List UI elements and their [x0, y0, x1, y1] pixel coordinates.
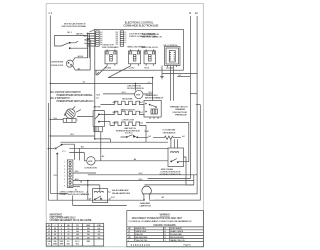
svg-text:240: 240: [54, 234, 56, 236]
svg-text:#12: #12: [67, 234, 69, 236]
svg-text:-2: -2: [86, 191, 87, 193]
svg-text:A-1: A-1: [108, 190, 110, 193]
wire k3 pin to smoke: [152, 78, 154, 101]
wire A-B row 2: [69, 153, 86, 161]
svg-text:USE COPPER WIRE ONLY: USE COPPER WIRE ONLY: [50, 217, 77, 219]
svg-text:SEUL: SEUL: [76, 244, 80, 246]
svg-text:ONLY: ONLY: [67, 244, 71, 246]
svg-text:LINE: LINE: [53, 241, 56, 243]
wire bottom long: [48, 199, 200, 201]
svg-text:NO-8: NO-8: [96, 95, 100, 97]
connector CB1: [67, 160, 73, 188]
svg-text:NO-1: NO-1: [139, 179, 143, 181]
svg-text:WIRE: WIRE: [86, 241, 90, 243]
wire L2 bus: [143, 16, 198, 194]
wire NO-2 row: [50, 135, 95, 137]
svg-text:JUNCTION BOARD: JUNCTION BOARD: [102, 46, 119, 49]
svg-text:A-3: A-3: [102, 155, 104, 158]
svg-text:NO-5 NO-1: NO-5 NO-1: [125, 133, 133, 135]
wire N to L2 link: [190, 93, 197, 95]
wire long row: [60, 141, 168, 143]
svg-text:#10: #10: [67, 231, 69, 233]
svg-text:COOLING FAN: COOLING FAN: [162, 129, 175, 132]
svg-text:F L: F L: [48, 244, 50, 246]
svg-text:P2-5: P2-5: [116, 40, 119, 42]
svg-text:A-8: A-8: [134, 158, 136, 161]
svg-text:A-3: A-3: [78, 67, 80, 70]
svg-text:BLANC / WHITE: BLANC / WHITE: [171, 230, 184, 233]
svg-text:MTR: MTR: [88, 161, 93, 163]
electronic control box U1: [95, 29, 184, 70]
wire latch motor left: [103, 93, 135, 95]
svg-text:NO. 8: NO. 8: [122, 92, 126, 94]
svg-text:CANADA ONLY: CANADA ONLY: [145, 94, 159, 97]
svg-text:OVEN PROBE: OVEN PROBE: [51, 62, 64, 64]
svg-text:WHITE / WHT: WHITE / WHT: [136, 231, 148, 233]
svg-text:10-1: 10-1: [100, 32, 103, 34]
svg-text:A-3: A-3: [89, 197, 91, 200]
wire cb1 rows: [73, 172, 96, 174]
svg-text:ON BK: ON BK: [53, 244, 57, 246]
svg-text:A-3: A-3: [162, 196, 164, 199]
svg-text:LAMPE FILM: LAMPE FILM: [140, 205, 151, 208]
svg-text:JAUNE / YELLOW: JAUNE / YELLOW: [171, 239, 185, 242]
svg-text:D-8: D-8: [178, 75, 181, 77]
svg-text:CONVECTION: CONVECTION: [84, 168, 97, 170]
wire latch motor right: [143, 93, 153, 95]
svg-text:N: N: [189, 11, 191, 15]
svg-text:240: 240: [54, 228, 56, 230]
wire fuse row: [153, 136, 181, 139]
svg-text:SWITCH MOTEUR NORMAL: SWITCH MOTEUR NORMAL: [62, 25, 87, 28]
legend box: [127, 211, 204, 247]
svg-text:MTR: MTR: [136, 95, 141, 97]
relay K4 connector: [165, 47, 181, 66]
relay K8 delay: [93, 189, 108, 203]
svg-text:DELAY DATA LAMP: DELAY DATA LAMP: [112, 189, 129, 192]
svg-text:4 1 1: 4 1 1: [62, 151, 65, 153]
svg-text:CONNECTEUR DE LA COMMANDE: CONNECTEUR DE LA COMMANDE: [59, 193, 90, 196]
wire probe riser A: [87, 33, 89, 58]
svg-text:MOTOR LATCH SWITCH: MOTOR LATCH SWITCH: [64, 23, 86, 26]
svg-text:A-2 B-8: A-2 B-8: [78, 55, 83, 58]
svg-text:B-1: B-1: [96, 98, 98, 100]
svg-text:CNTRL CONNECTOR BLOC: CNTRL CONNECTOR BLOC: [60, 191, 85, 193]
svg-text:L-1: L-1: [148, 82, 150, 84]
wire diagonal into control box: [89, 30, 94, 33]
operations table: [46, 223, 103, 246]
wire latch contact 2: [71, 47, 88, 49]
svg-text:COLORS / COULEURS: COLORS / COULEURS: [153, 225, 176, 227]
svg-text:10-4: 10-4: [100, 38, 103, 40]
svg-text:NO. 1 MOTOR LATCH SWITCH: NO. 1 MOTOR LATCH SWITCH: [51, 91, 81, 94]
ground: [160, 74, 164, 79]
svg-text:R-1: R-1: [83, 82, 86, 84]
svg-text:10-5: 10-5: [100, 40, 103, 42]
svg-text:YELLOW / YEL: YELLOW / YEL: [136, 240, 148, 242]
wire row 205: [73, 195, 127, 205]
svg-text:NO-1: NO-1: [54, 175, 58, 177]
svg-text:P8 2-8: P8 2-8: [144, 67, 148, 69]
wire stubs into strip1: [87, 34, 96, 47]
svg-text:A-2: A-2: [148, 135, 150, 138]
relay K1: [105, 51, 117, 64]
wire vert to lamp sw: [56, 154, 58, 201]
wire bus 3: [154, 105, 201, 201]
wire probe riser B: [89, 40, 91, 70]
svg-text:MOTEUR CONVECTION: MOTEUR CONVECTION: [160, 174, 182, 176]
svg-text:INTERRUPTEUR MOTEUR NORMAL: INTERRUPTEUR MOTEUR NORMAL: [57, 94, 94, 97]
svg-text:UTILISER SEULEMENT DU FIL DE C: UTILISER SEULEMENT DU FIL DE CUIVRE: [50, 220, 92, 222]
svg-text:A-2: A-2: [84, 34, 86, 37]
relay K3: [144, 51, 156, 64]
wire row under relays: [108, 77, 152, 79]
wire A-8 row: [95, 160, 168, 162]
svg-text:IMPORTANT:: IMPORTANT:: [50, 213, 63, 216]
svg-text:Page 10: Page 10: [184, 245, 192, 247]
wire k4 pin to L2: [162, 66, 197, 74]
convection motor M3: [87, 157, 95, 165]
svg-text:TEMP: TEMP: [59, 244, 63, 246]
svg-text:TEMP: TEMP: [59, 241, 63, 243]
wire breaker to bus3: [196, 104, 201, 106]
svg-text:LATCH MOTOR: LATCH MOTOR: [127, 85, 141, 88]
svg-text:A-2: A-2: [182, 135, 184, 138]
svg-text:208: 208: [54, 231, 56, 233]
svg-text:P2-6: P2-6: [116, 42, 119, 44]
wire latch assy to K6: [77, 116, 93, 118]
svg-text:BLACK / BLK: BLACK / BLK: [136, 227, 147, 230]
svg-text:SMOKE ELIMINATOR: SMOKE ELIMINATOR: [145, 96, 164, 99]
svg-text:COUPER LE COURANT AVANT D EFFE: COUPER LE COURANT AVANT D EFFECTUER UNE …: [129, 220, 192, 223]
svg-text:NOIR / BLACK: NOIR / BLACK: [171, 227, 183, 230]
switch latch lever 1: [61, 43, 69, 46]
svg-text:10-2: 10-2: [100, 34, 103, 36]
svg-text:COMMANDE ELECTRONIQUE: COMMANDE ELECTRONIQUE: [123, 25, 158, 28]
wire left bus 2: [47, 103, 49, 200]
svg-text:P2-1: P2-1: [116, 32, 119, 34]
wire latch contact 1: [71, 41, 79, 43]
svg-text:4.8: 4.8: [48, 231, 50, 233]
svg-text:3.6: 3.6: [48, 237, 50, 239]
svg-text:CONN: CONN: [97, 225, 101, 227]
svg-text:L-1 DK2: L-1 DK2: [129, 67, 135, 69]
svg-text:MOTEUR VERROU: MOTEUR VERROU: [127, 88, 144, 90]
svg-text:RED / RD: RED / RD: [136, 234, 144, 236]
page border: [46, 4, 203, 247]
svg-text:SMELL/ONL SOON: SMELL/ONL SOON: [141, 47, 158, 49]
wire probe upper: [72, 58, 87, 62]
svg-text:#10: #10: [67, 228, 69, 230]
wire A-B row 1: [69, 147, 168, 149]
svg-text:V: V: [54, 225, 55, 227]
svg-text:BREAKER: BREAKER: [176, 108, 186, 111]
svg-text:ROUGE / RED: ROUGE / RED: [171, 234, 183, 236]
wire N bus: [148, 16, 191, 178]
cntrl connector text: [75, 189, 76, 191]
svg-text:BRUN / BROWN: BRUN / BROWN: [171, 237, 184, 239]
junction dots: [50, 83, 51, 84]
door switch S1: [48, 148, 54, 150]
svg-text:10-3: 10-3: [100, 36, 103, 38]
svg-text:NO. 2 TDB SWITCH: NO. 2 TDB SWITCH: [51, 98, 70, 100]
wire L1 bus: [49, 16, 51, 194]
svg-text:LIGHT SW: LIGHT SW: [93, 107, 101, 109]
svg-text:WARNING: WARNING: [160, 214, 171, 217]
wire pins down k1 diagonals: [96, 66, 107, 75]
svg-text:DELAIE LAMPE FILM: DELAIE LAMPE FILM: [112, 192, 130, 195]
wire D-8 tap: [177, 76, 190, 78]
wire probe lower: [73, 65, 91, 70]
data lamp DS1: [142, 186, 152, 200]
svg-text:318046209: 318046209: [131, 244, 151, 247]
relay K7 cooling: [168, 148, 184, 167]
svg-text:THERMIQUE: THERMIQUE: [175, 114, 188, 116]
svg-text:ARE PLUG DANSE ON: ARE PLUG DANSE ON: [142, 36, 162, 39]
connector P1 strip 1: [96, 31, 100, 46]
svg-text:NO-2: NO-2: [139, 173, 143, 175]
svg-text:P2-3: P2-3: [116, 36, 119, 38]
svg-text:NO-2: NO-2: [111, 197, 115, 199]
svg-text:3.6: 3.6: [48, 234, 50, 236]
svg-text:P2-2: P2-2: [116, 34, 119, 36]
svg-text:DBL LOCK SWITCH: DBL LOCK SWITCH: [164, 45, 179, 47]
wire k4 pins down: [171, 67, 174, 101]
svg-text:2-8 4-8 6-8: 2-8 4-8 6-8: [166, 68, 173, 70]
svg-text:BROWN / BRN: BROWN / BRN: [136, 237, 148, 239]
svg-text:208: 208: [54, 237, 56, 239]
svg-text:NO-2: NO-2: [70, 134, 74, 136]
svg-text:THERMAL CIRCUIT: THERMAL CIRCUIT: [170, 106, 189, 109]
connector A strip: [88, 33, 90, 58]
wire cooling top: [146, 121, 189, 123]
wire row R1: [50, 82, 152, 84]
wire door sw no2: [62, 144, 74, 160]
svg-text:BROIL/GRIL: BROIL/GRIL: [122, 99, 133, 101]
wire latch loop: [55, 36, 85, 47]
svg-text:VENTILATEUR: VENTILATEUR: [163, 131, 176, 134]
svg-text:#12: #12: [67, 237, 69, 239]
svg-text:NO. 8: NO. 8: [149, 92, 153, 94]
svg-text:4.8: 4.8: [48, 228, 50, 230]
svg-text:NO.8: NO.8: [75, 171, 79, 173]
connector P1 strip 2: [120, 31, 124, 46]
svg-text:DATA LAMP: DATA LAMP: [140, 202, 151, 205]
svg-text:INTERRUPTEUR VENTILATEUR NO-4: INTERRUPTEUR VENTILATEUR NO-4: [57, 100, 95, 103]
wire NO-2 row2: [88, 174, 197, 176]
svg-text:P2-4: P2-4: [116, 38, 119, 40]
svg-text:DISCONNECT POWER MOTOR NON-SIG: DISCONNECT POWER MOTOR NON-SIGN UNIT: [132, 218, 183, 220]
relay K2: [129, 51, 141, 64]
svg-text:CONVECTION: CONVECTION: [122, 119, 135, 121]
svg-text:TOP: TOP: [76, 225, 79, 227]
wire bottom of bus: [50, 192, 67, 194]
svg-text:SONDE FOUR: SONDE FOUR: [51, 65, 64, 67]
